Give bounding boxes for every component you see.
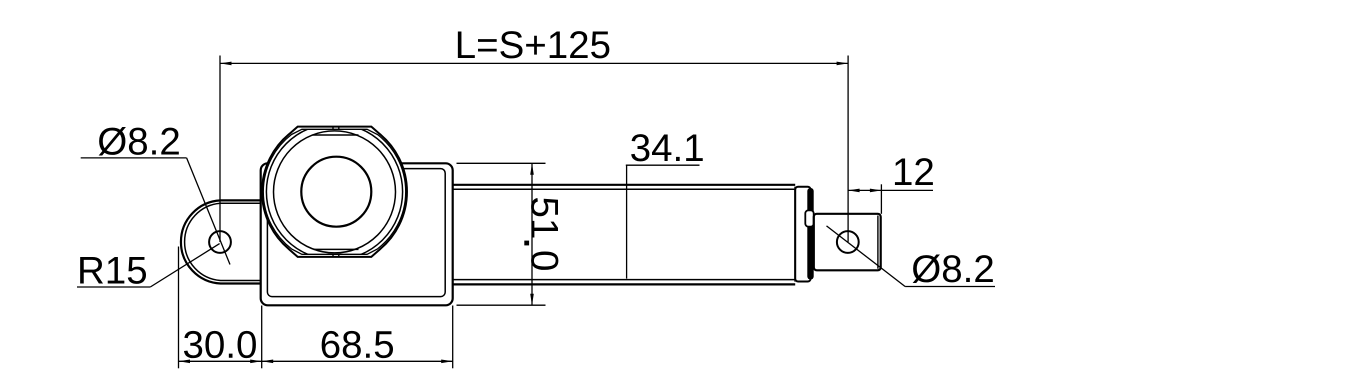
dim 51 rotated text	[531, 198, 558, 237]
dimension 34.1 vertical line	[626, 165, 628, 278]
dimension L left arrow	[220, 62, 232, 66]
gear head bore circle	[301, 157, 371, 227]
leader line R15	[150, 244, 219, 287]
tube end face dark band	[807, 188, 813, 280]
dim 34.1 text	[631, 134, 703, 161]
dimension L line	[220, 62, 848, 64]
dim 51.0 zero rotated text	[531, 252, 558, 270]
left clevis plate outer outline	[181, 200, 261, 283]
tube end seam	[794, 187, 796, 282]
rod end clevis block inner right edge	[877, 216, 879, 269]
gear head bottom chord line	[314, 248, 359, 250]
label dia 8.2 left text	[99, 127, 179, 156]
dimension L right extension line	[847, 56, 849, 242]
label R15 text	[80, 257, 146, 284]
dimension L right arrow	[837, 62, 849, 66]
leader underline diameter 8.2 right	[905, 286, 995, 288]
rod anti-rotation tab	[805, 210, 813, 226]
leader line diameter 8.2 right	[827, 226, 906, 287]
rod end mounting hole	[837, 231, 859, 253]
gear head outer profile with flats	[262, 127, 407, 257]
motor housing outer body	[261, 163, 453, 305]
dimension 12 line with tail	[848, 189, 933, 191]
gear head inner offset profile	[263, 129, 405, 254]
dimension 34.1 underline	[626, 164, 700, 166]
leader underline diameter 8.2 left	[81, 157, 187, 159]
dimension 51.0 arrows	[530, 163, 534, 175]
dimension 30.0 left extension line	[178, 247, 180, 369]
gear head ring circle r68.1 (clipped)	[266, 124, 402, 260]
dimension 12 right extension line	[880, 184, 882, 214]
outer tube top edge	[453, 184, 796, 186]
dim 12 text	[895, 158, 933, 185]
dimension 51.0 line	[531, 163, 533, 305]
bottom dimension line	[179, 360, 453, 362]
outer tube bottom inner line	[453, 279, 796, 281]
outer tube top inner line	[453, 188, 796, 190]
label dia 8.2 right text	[913, 254, 993, 283]
leader line diameter 8.2 left	[187, 158, 230, 265]
gear head top chord line	[313, 134, 359, 136]
outer tube bottom edge	[453, 283, 796, 285]
gear head top parting notch	[332, 127, 334, 130]
rod end clevis block	[814, 214, 881, 270]
dimension 68.5 right extension line	[452, 306, 454, 369]
dimension L left extension line	[219, 56, 221, 243]
leader underline R15	[77, 286, 150, 288]
tube end section	[795, 187, 810, 282]
left clevis mounting hole	[209, 231, 231, 253]
dimension 51.0 bottom extension line	[457, 304, 546, 306]
bottom dimension arrows	[179, 360, 191, 364]
dimension 12 arrows	[848, 189, 860, 193]
gear head bottom parting notch	[332, 254, 334, 257]
dim L=S+125 text	[458, 31, 610, 58]
dim 68.5 text	[322, 331, 393, 358]
dimension middle extension line	[261, 306, 263, 369]
motor housing inner offset outline	[267, 169, 445, 297]
gear head ring circle r60.2	[274, 131, 396, 253]
dimension 51.0 top extension line	[457, 162, 546, 164]
dim 30.0 text	[184, 331, 256, 358]
left clevis plate inner offset outline	[185, 203, 261, 280]
